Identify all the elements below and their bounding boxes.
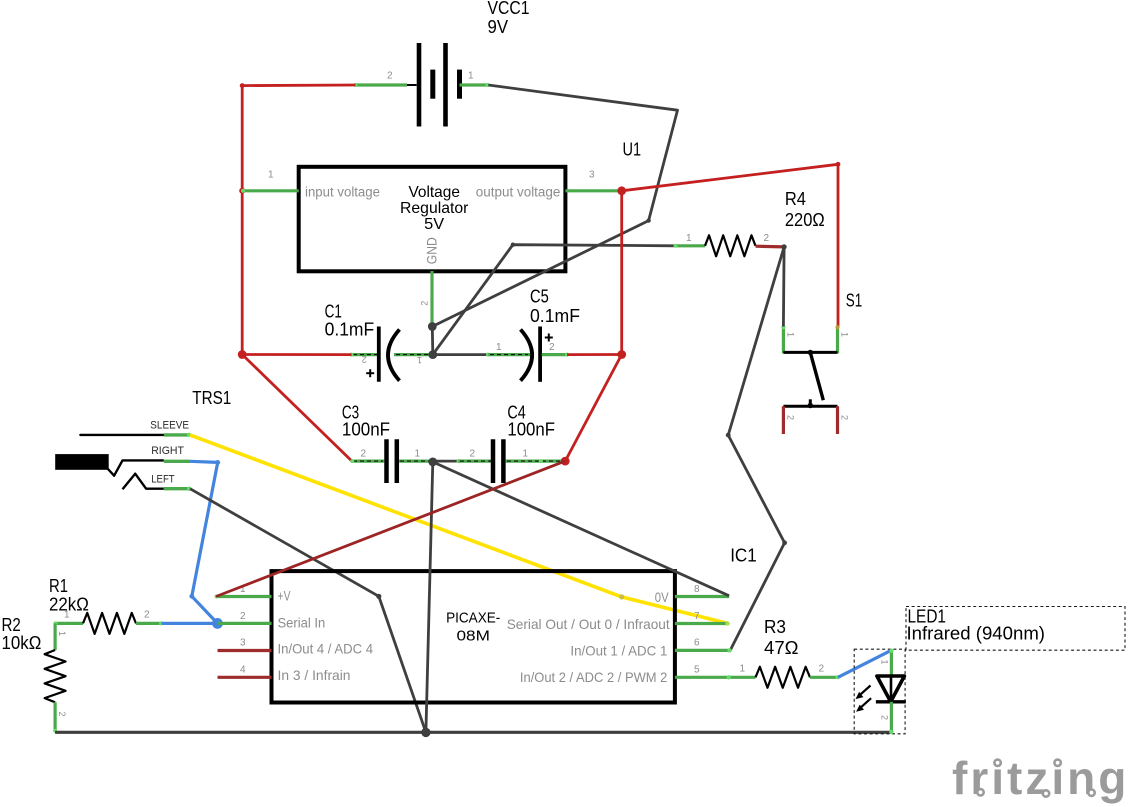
jack TRS1 left conductor [123,474,164,490]
switch S1 pin bottom-left leg [782,406,785,434]
svg-text:2: 2 [764,233,770,244]
switch S1 lever [808,350,824,401]
jack TRS1 RIGHT pin leg [164,460,190,463]
wire battery pin2 to left rail (red) [242,84,355,87]
svg-text:1: 1 [840,332,850,337]
IC1 title [446,610,500,645]
IC1 pin 5 number [694,664,700,675]
wire left rail vertical (red) [241,86,244,355]
IC1 pin 1 number [240,584,246,595]
switch S1 lower contact [808,399,813,408]
capacitor C4 pin 2 leg [459,460,494,463]
node GND junction (gray) [428,322,437,331]
node C4 output junction (red) [561,457,570,466]
svg-text:R1: R1 [49,576,68,596]
IC1 text In/Out 2 [520,669,668,685]
wire GND junction to cap junction (gray) [431,327,434,355]
switch S1 pin bottom-left number [786,415,796,420]
resistor R2 pin 1 number [57,631,67,636]
svg-text:TRS1: TRS1 [192,388,231,408]
switch S1 pin top-right number [840,332,850,337]
svg-text:2: 2 [361,449,367,460]
svg-text:PICAXE-: PICAXE- [446,610,500,627]
switch S1 pin top-left number [786,332,796,337]
jack TRS1 sleeve conductor [80,434,163,436]
bend battery-left (red) [240,83,245,88]
LED1 triangle [877,676,905,702]
LED1 label [907,607,1046,644]
IC1 pin 6 leg [675,648,732,652]
svg-text:output voltage: output voltage [476,185,561,200]
svg-text:5V: 5V [424,216,444,233]
capacitor C1 pin 2 leg [350,353,378,357]
svg-text:2: 2 [240,611,246,622]
svg-text:IC1: IC1 [730,546,757,566]
svg-text:Infrared (940nm): Infrared (940nm) [907,624,1046,644]
svg-text:0V: 0V [655,589,669,605]
svg-text:R3: R3 [764,617,786,637]
wire IC pin5 to R3 (green) [727,675,756,679]
svg-text:RIGHT: RIGHT [151,445,184,457]
wire junction to C4 pin2 (gray) [433,459,461,463]
resistor R1 pin 1 number [64,610,70,621]
svg-text:2: 2 [57,712,67,717]
svg-text:VCC1: VCC1 [488,0,530,18]
svg-text:+V: +V [278,588,291,604]
node regulator input (red) [239,188,245,194]
svg-text:Serial Out / Out 0 / Infraout: Serial Out / Out 0 / Infraout [507,616,670,632]
switch S1 pin bottom-right number [840,415,850,420]
capacitor C4 pin 1 number [523,449,529,460]
wire R3 to LED1 (blue) [838,650,891,677]
resistor R1 body [83,613,136,634]
resistor R2 label [2,615,42,653]
fritzing watermark [952,752,1128,804]
wire SLEEVE to IC pin7 (yellow) [190,435,728,624]
voltage regulator U1 box [299,167,566,271]
IC1 text In/Out 1 [570,642,667,658]
capacitor C5 pin 2 number [549,342,555,353]
svg-text:1: 1 [880,660,890,665]
wire ground bus (gray) [55,731,891,734]
svg-text:1: 1 [57,631,67,636]
IC1 text In 3 / Infrain [278,667,351,683]
IC1 text Serial In [278,614,326,630]
U1 pin 2 number [420,301,430,306]
resistor R2 pin 2 number [57,712,67,717]
capacitor C3 pin 1 number [415,449,421,460]
capacitor C1 pin 2 number [362,355,367,365]
capacitor C1 pin 1 number [417,355,422,365]
capacitor C3 plates [387,439,397,483]
capacitor C4 pin 1 leg [506,459,566,463]
svg-text:2: 2 [387,70,393,81]
IC1 box [272,571,675,702]
jack TRS1 text LEFT [151,474,175,486]
svg-text:U1: U1 [623,140,642,160]
resistor R4 body [705,235,756,256]
wire R4 to IC pin6 (gray) [726,247,787,651]
svg-text:2: 2 [362,355,367,365]
wire RIGHT to Serial In (blue) [189,460,220,623]
svg-text:100nF: 100nF [507,420,555,440]
capacitor C5 label [530,287,580,326]
svg-text:08M: 08M [457,627,490,644]
svg-text:10kΩ: 10kΩ [2,633,42,653]
U1 pin 1 number [268,169,274,180]
IC1 pin 5 leg [675,676,729,679]
node output rail cap junction (red) [617,350,626,359]
svg-text:220Ω: 220Ω [785,210,825,230]
IC1 pin 7 leg [675,621,730,625]
node cap row junction (gray) [428,350,437,359]
svg-text:Voltage: Voltage [408,184,460,201]
jack TRS1 text SLEEVE [150,420,189,432]
svg-text:C5: C5 [530,287,549,307]
node C3C4 junction (gray) [428,458,437,467]
switch S1 label [846,291,862,311]
svg-text:In 3 / Infrain: In 3 / Infrain [278,667,351,683]
wire LEFT to ground bus (gray) [190,489,426,733]
svg-text:1: 1 [268,169,274,180]
IC1 pin 7 number [694,611,700,622]
resistor R4 pin 2 number [764,233,770,244]
wire output rail vertical (red) [620,191,623,355]
capacitor C5 arc [521,330,533,381]
wire left rail to C3 pin2 (red) [242,355,352,462]
wire output junction to C4 pin1 (red) [565,355,622,462]
capacitor C5 pin 1 leg [488,353,530,356]
svg-text:1: 1 [686,233,692,244]
IC1 pin 8 number [694,584,700,595]
svg-text:4: 4 [240,664,246,675]
svg-text:Serial In: Serial In [278,614,326,630]
svg-text:C1: C1 [325,302,342,322]
LED1 dashed part box [854,649,905,734]
node left rail cap junction (red) [238,350,247,359]
U1 text GND [424,237,440,264]
IC1 pin 6 number [694,638,700,649]
LED1 arrow 2 [856,698,871,712]
node R4 pin2 (gray) [782,244,787,249]
resistor R3 pin 2 number [819,664,825,675]
resistor R2 pin 1 leg [53,623,56,650]
jack TRS1 label [192,388,231,408]
jack TRS1 body [55,454,108,470]
svg-text:2: 2 [144,610,150,621]
svg-text:Regulator: Regulator [400,200,469,217]
svg-text:input voltage: input voltage [305,185,380,200]
IC1 pin 2 number [240,611,246,622]
LED1 pin 2 number [880,715,890,720]
svg-text:1: 1 [417,355,422,365]
wire C3C4 junction to IC pin8 (gray) [433,462,729,596]
jack TRS1 SLEEVE pin leg [164,433,192,437]
LED1 pin 1 number [880,660,890,665]
U1 pin 1 leg [241,189,299,193]
jack TRS1 right conductor [108,460,164,475]
capacitor C4 pin 2 number [470,449,476,460]
wire C4 junction to +V (dark red) [216,461,565,596]
capacitor C3 pin 2 leg [350,459,384,463]
U1 reference label [623,140,642,160]
LED1 dashed label box [906,607,1125,651]
resistor R1 pin 1 leg [54,621,83,625]
svg-text:2: 2 [819,664,825,675]
IC1 pin 3 number [240,638,246,649]
wire C5 pin2 to output rail (red) [567,353,622,356]
resistor R2 body [45,650,66,702]
svg-text:2: 2 [420,301,430,306]
resistor R3 body [756,667,811,688]
capacitor C3 label [342,403,390,440]
IC1 text 0V [655,589,669,605]
capacitor C4 label [507,403,555,440]
svg-text:47Ω: 47Ω [764,638,799,658]
IC1 pin 8 leg [675,595,729,598]
node ground bus junction (gray) [421,728,430,737]
battery VCC1 label [488,0,530,37]
resistor R3 pin 2 leg [810,675,839,679]
U1 pin 3 number [589,169,595,180]
LED1 cathode bar [876,700,906,703]
IC1 pin 4 number [240,664,246,675]
svg-text:R4: R4 [785,189,806,209]
switch S1 pin top-right leg [836,325,840,353]
capacitor C1 label [325,302,375,340]
battery pin 1 number [468,70,474,81]
wire output to S1 (red) [622,162,841,327]
switch S1 top bar [783,351,837,354]
svg-text:9V: 9V [488,17,509,37]
svg-text:GND: GND [424,237,440,264]
resistor R2 pin 2 leg [53,702,57,733]
svg-text:In/Out 2 / ADC 2 / PWM 2: In/Out 2 / ADC 2 / PWM 2 [520,669,668,685]
svg-text:S1: S1 [846,291,862,311]
wire battery pin1 to GND junction (gray) [432,85,677,327]
resistor R1 label [49,576,89,614]
svg-text:5: 5 [694,664,700,675]
resistor R1 pin 2 leg [136,621,163,625]
resistor R4 label [785,189,825,230]
capacitor C1 plus [366,369,374,377]
svg-text:In/Out 4 / ADC 4: In/Out 4 / ADC 4 [278,640,374,656]
svg-text:7: 7 [694,611,700,622]
wire left rail to C1 pin2 (red) [242,353,351,356]
IC1 text +V [278,588,291,604]
IC1 pin 1 leg [215,595,272,599]
wire cap junction to R4 (gray) [433,243,675,355]
battery VCC1 [406,43,460,127]
IC1 pin 4 leg [218,676,272,679]
svg-text:1: 1 [523,449,529,460]
resistor R3 label [764,617,799,658]
U1 text output voltage [476,185,561,200]
svg-text:SLEEVE: SLEEVE [150,420,189,432]
wire R1 to Serial In (blue) [162,622,218,625]
IC1 pin 2 leg [218,622,272,625]
IC1 text In/Out 4 [278,640,374,656]
U1 text input voltage [305,185,380,200]
resistor R4 pin 1 number [686,233,692,244]
svg-text:1: 1 [740,664,746,675]
svg-text:LEFT: LEFT [151,474,175,486]
svg-text:1: 1 [64,610,70,621]
U1 title [400,184,469,233]
jack TRS1 LEFT pin leg [164,487,192,491]
capacitor C3 pin 2 number [361,449,367,460]
capacitor C5 plus [545,334,553,342]
svg-text:8: 8 [694,584,700,595]
resistor R1 pin 2 number [144,610,150,621]
svg-text:1: 1 [496,342,502,353]
svg-text:2: 2 [549,342,555,353]
capacitor C1 plate [377,327,381,382]
switch S1 pin top-left leg [781,325,785,353]
capacitor C5 pin 2 leg [542,353,569,357]
capacitor C1 pin 1 leg [394,353,433,356]
IC1 text Serial Out [507,616,670,632]
svg-text:2: 2 [880,715,890,720]
wire R4 to S1 (gray) [782,247,785,327]
wire cap junction to C5 (gray) [433,353,490,357]
capacitor C1 arc [388,330,400,381]
svg-text:0.1mF: 0.1mF [530,306,580,326]
capacitor C5 pin 1 number [496,342,502,353]
U1 pin 3 leg [565,189,621,192]
wire C3C4 junction to ground bus (gray) [426,462,433,733]
capacitor C4 plates [493,439,503,483]
svg-text:1: 1 [415,449,421,460]
svg-text:In/Out 1 / ADC 1: In/Out 1 / ADC 1 [570,642,667,658]
LED1 pin 2 leg [889,702,893,734]
svg-text:100nF: 100nF [342,420,390,440]
svg-text:1: 1 [786,332,796,337]
jack TRS1 text RIGHT [151,445,184,457]
svg-text:2: 2 [470,449,476,460]
battery pin 1 leg [460,83,490,87]
LED1 arrow 1 [856,686,871,700]
battery pin 2 leg [354,83,408,87]
LED1 pin 1 leg [889,649,893,676]
IC1 reference label [730,546,757,566]
svg-text:3: 3 [240,638,246,649]
IC1 pin 3 leg [218,649,272,652]
capacitor C5 plate [538,327,542,382]
switch S1 bottom bar [783,405,837,408]
U1 pin 2 GND leg [430,271,433,327]
node regulator output (red) [617,186,626,195]
capacitor C3 pin 1 leg [399,460,433,463]
svg-text:2: 2 [840,415,850,420]
svg-text:0.1mF: 0.1mF [325,320,375,340]
svg-text:3: 3 [589,169,595,180]
svg-text:6: 6 [694,638,700,649]
svg-text:2: 2 [786,415,796,420]
svg-text:1: 1 [468,70,474,81]
node Serial In junction (blue) [212,618,223,629]
resistor R4 pin 2 leg [756,245,785,249]
resistor R4 pin 1 leg [674,244,706,248]
battery pin 2 number [387,70,393,81]
switch S1 pin bottom-right leg [836,406,839,434]
resistor R3 pin 1 number [740,664,746,675]
